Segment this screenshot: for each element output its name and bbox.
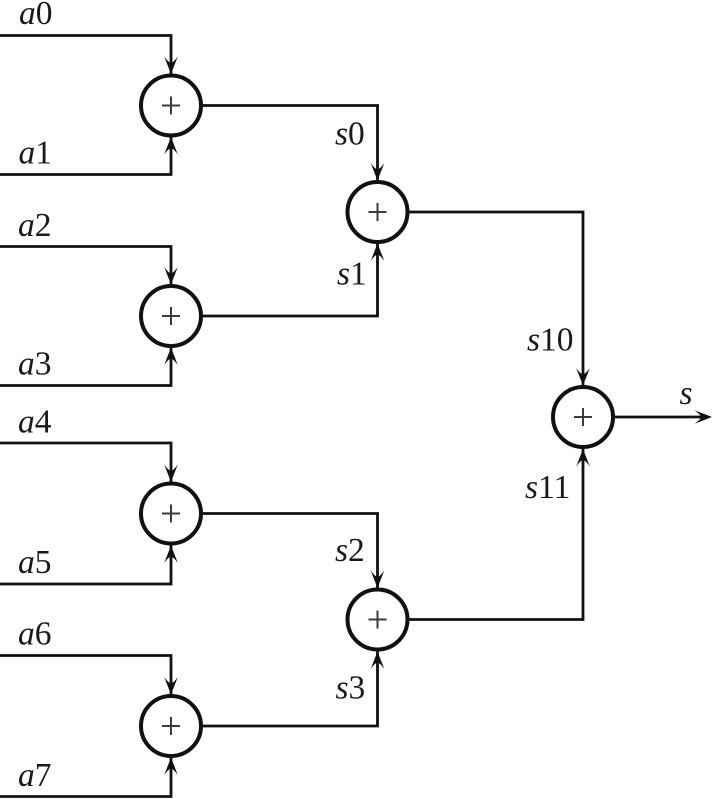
svg-text:a4: a4 [18, 404, 52, 441]
wire s10 [410, 212, 584, 386]
wire a6 [0, 656, 171, 696]
wire a2 [0, 247, 171, 286]
adder U5 [348, 182, 408, 242]
adder U6 [348, 590, 408, 650]
wire a1 [0, 137, 171, 175]
adder U2 [141, 286, 201, 346]
adder U4 [141, 696, 201, 756]
svg-text:s: s [680, 375, 693, 412]
wire a3 [0, 347, 171, 386]
wire a5 [0, 545, 171, 584]
svg-text:a3: a3 [18, 346, 52, 383]
svg-text:s2: s2 [335, 532, 365, 569]
wire s1 [203, 243, 378, 316]
wire s11 [410, 449, 584, 620]
wire a4 [0, 443, 171, 483]
svg-text:a1: a1 [19, 135, 53, 172]
adder U7 [553, 387, 613, 447]
wire s output [615, 416, 707, 419]
svg-text:a0: a0 [19, 0, 53, 32]
wire s3 [203, 651, 378, 726]
svg-text:s11: s11 [525, 469, 570, 506]
svg-text:a6: a6 [18, 616, 52, 653]
svg-text:s1: s1 [337, 256, 367, 293]
wire s0 [203, 106, 378, 182]
wire a0 [0, 36, 171, 75]
svg-text:a5: a5 [18, 544, 52, 581]
svg-text:s0: s0 [335, 116, 365, 153]
adder U1 [141, 76, 201, 136]
wire a7 [0, 758, 171, 797]
svg-text:s3: s3 [336, 670, 366, 707]
svg-text:a2: a2 [18, 207, 52, 244]
wire s2 [203, 514, 378, 589]
adder U3 [141, 484, 201, 544]
svg-text:a7: a7 [18, 757, 52, 794]
svg-text:s10: s10 [527, 322, 574, 359]
